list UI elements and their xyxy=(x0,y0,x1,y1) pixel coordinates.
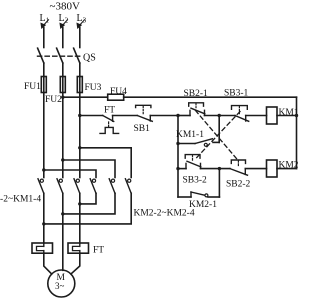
wire right rail down xyxy=(296,97,298,168)
svg-text:SB2-2: SB2-2 xyxy=(226,180,251,190)
svg-text:FT: FT xyxy=(93,246,104,256)
wire control rail 2 start xyxy=(80,115,103,117)
wire coil KM1 to right rail xyxy=(277,115,297,117)
wire SB2-1 to SB3-1 xyxy=(205,115,236,117)
pushbutton SB2-1 (NO start fwd) xyxy=(178,103,205,116)
pushbutton SB1 (NC stop) xyxy=(136,105,153,121)
wire crossover bottom 3 (KM2 pole3 to L1 wire) xyxy=(44,193,131,224)
thermal heater FT element 2 xyxy=(68,243,89,253)
contact KM1-1 (seal-in) xyxy=(178,139,219,147)
pushbutton SB2-2 (NC interlock) xyxy=(230,160,248,175)
svg-text:SB1: SB1 xyxy=(134,124,151,134)
thermal heater FT element 1 xyxy=(32,243,53,253)
svg-text:QS: QS xyxy=(83,53,96,64)
svg-text:FT: FT xyxy=(104,106,115,116)
thermal contact FT xyxy=(100,116,119,134)
switch QS linkage dashed xyxy=(38,55,83,57)
svg-text:FU3: FU3 xyxy=(85,83,102,93)
contact KM2 pole1 xyxy=(90,179,96,194)
fuse FU4 xyxy=(108,94,124,100)
fuse FU2 xyxy=(60,77,65,93)
mechanical link SB2-1 to SB2-2 dashed xyxy=(196,111,238,160)
wire SB2-2 to coil KM2 xyxy=(245,168,266,170)
contact KM2 pole2 xyxy=(109,179,115,194)
wire rung2 left xyxy=(178,168,186,170)
wire L1 vertical to contacts xyxy=(43,93,45,178)
wire heater1 to motor xyxy=(44,253,52,274)
wire SB3-2 to node C xyxy=(201,168,231,170)
svg-text:~380V: ~380V xyxy=(50,1,80,13)
arrow L2 xyxy=(60,20,68,28)
wire node A vertical xyxy=(177,116,179,198)
contact KM2-1 (seal-in) xyxy=(178,169,219,197)
wire control rail top to right xyxy=(124,96,297,98)
svg-text:KM1-1: KM1-1 xyxy=(176,130,204,140)
svg-text:3~: 3~ xyxy=(55,281,65,291)
contact KM1 pole1 xyxy=(38,179,44,194)
svg-text:FU4: FU4 xyxy=(110,87,127,97)
wire crossover top 1 (L3 to KM2 pole3) xyxy=(80,148,131,178)
coil KM2 xyxy=(267,160,278,177)
arrow L3 xyxy=(77,20,85,28)
wire node B vertical xyxy=(218,116,220,143)
motor M circle xyxy=(48,270,75,297)
svg-text:SB3-1: SB3-1 xyxy=(224,89,249,99)
wire L1 mid xyxy=(43,63,45,77)
wire crossover bottom 2 (KM2 pole2 to L2 wire) xyxy=(63,193,115,214)
switch QS pole 2 xyxy=(57,48,63,63)
coil KM1 xyxy=(267,107,278,124)
wire crossover top 3 (L1 to KM2 pole1) xyxy=(44,170,96,178)
svg-text:SB2-1: SB2-1 xyxy=(184,89,209,99)
wire L3 mid xyxy=(79,63,81,77)
wire L2 vertical to contacts xyxy=(62,93,64,178)
pushbutton SB3-2 (NO start rev) xyxy=(185,155,201,169)
wire KM1 pole bottoms down xyxy=(43,193,45,243)
svg-text:FU1: FU1 xyxy=(24,82,41,92)
wire SB3-1 to coil KM1 xyxy=(246,115,267,117)
wire L3 top xyxy=(79,28,81,48)
wire L1 top xyxy=(43,28,45,48)
wire control rail top from FU2 xyxy=(63,96,108,98)
wire SB1 to node A xyxy=(150,115,178,117)
wire L3 vertical to contacts xyxy=(79,93,81,178)
pushbutton SB3-1 (NC interlock) xyxy=(232,106,249,122)
wire crossover top 2 (L2 to KM2 pole2) xyxy=(63,160,115,178)
wire L2 mid xyxy=(62,63,64,77)
wire heater2 to motor xyxy=(71,253,80,274)
contact KM1 pole2 xyxy=(57,179,63,194)
fuse FU3 xyxy=(77,77,82,93)
wire FT to SB1 xyxy=(113,115,138,117)
wire crossover bottom 1 (KM2 pole1 to L3 wire) xyxy=(80,193,96,204)
arrow L1 xyxy=(41,20,49,28)
svg-text:KM1-2~KM1-4: KM1-2~KM1-4 xyxy=(0,195,41,205)
mechanical link SB3-1 to SB3-2 dashed xyxy=(196,112,240,159)
svg-text:SB3-2: SB3-2 xyxy=(183,176,208,186)
switch QS pole 3 xyxy=(74,48,80,63)
svg-text:FU2: FU2 xyxy=(45,95,62,105)
wire L2 top xyxy=(62,28,64,48)
fuse FU1 xyxy=(41,77,46,93)
wire coil KM2 to right rail xyxy=(277,168,297,170)
contact KM2 pole3 xyxy=(125,179,131,194)
svg-text:KM2-2~KM2-4: KM2-2~KM2-4 xyxy=(134,209,195,219)
switch QS pole 1 xyxy=(38,48,44,63)
contact KM1 pole3 xyxy=(74,179,80,194)
